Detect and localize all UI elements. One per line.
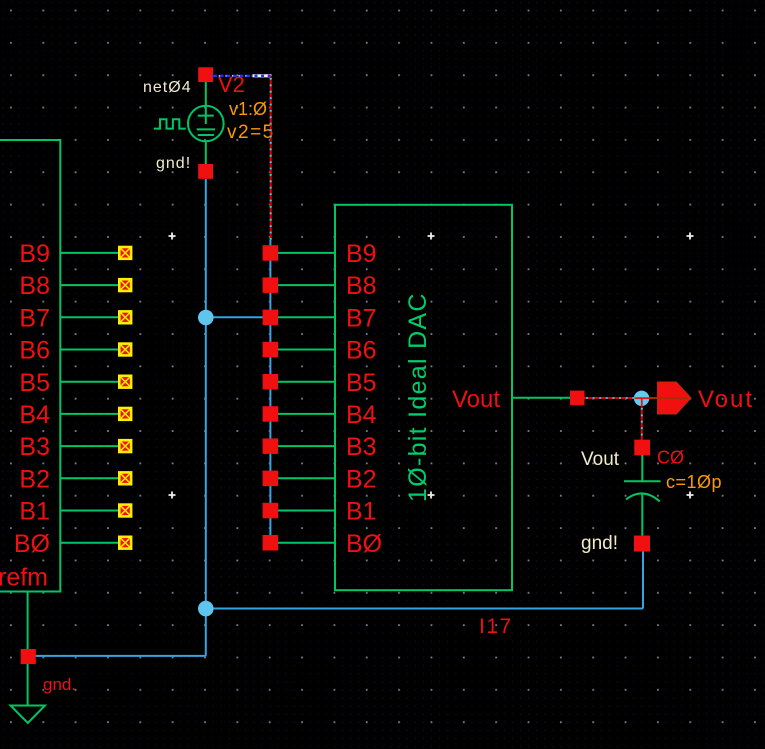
output pin arrow Vout bbox=[657, 382, 691, 414]
svg-text:Vout: Vout bbox=[581, 449, 620, 470]
junction dot at B7 bbox=[198, 310, 214, 326]
capacitor gnd terminal square bbox=[634, 536, 650, 552]
svg-text:netØ4: netØ4 bbox=[143, 79, 192, 96]
wire DAC input bus vertical blue bbox=[269, 240, 271, 550]
ground symbol triangle bbox=[11, 706, 46, 724]
svg-text:B5: B5 bbox=[19, 369, 50, 397]
grid marker cross 3 bbox=[687, 233, 694, 240]
left block pin labels B9-B0 bbox=[14, 240, 50, 558]
wire net04 horizontal selected (white end segment) bbox=[253, 74, 272, 77]
wire net04 white specks bbox=[214, 75, 252, 77]
wire B3 left stub bbox=[60, 445, 118, 447]
wire DAC B9 stub bbox=[278, 252, 335, 254]
wire DAC B5 stub bbox=[278, 381, 335, 383]
svg-text:B6: B6 bbox=[346, 337, 377, 365]
schematic pin B4 (yellow) bbox=[118, 407, 132, 421]
wire main vertical blue (gnd net) bbox=[205, 179, 207, 656]
wire DAC B3 stub bbox=[278, 445, 335, 447]
DAC block outline I17 bbox=[335, 205, 512, 590]
schematic pin B7 (yellow) bbox=[118, 310, 132, 324]
svg-text:1Ø-bit Ideal DAC: 1Ø-bit Ideal DAC bbox=[404, 292, 432, 502]
svg-text:B6: B6 bbox=[19, 337, 50, 365]
DAC terminal square B9 bbox=[263, 245, 279, 261]
svg-text:refm: refm bbox=[0, 564, 48, 592]
svg-text:B8: B8 bbox=[346, 272, 377, 300]
schematic pin B5 (yellow) bbox=[118, 375, 132, 389]
wire Vout from DAC bbox=[512, 397, 570, 399]
wire right vertical blue (cap gnd) bbox=[642, 551, 644, 609]
V2 plus sign bbox=[198, 115, 214, 117]
wire B2 left stub bbox=[60, 477, 118, 479]
voltage source V2 top wire stub bbox=[205, 82, 207, 124]
wire DAC B6 stub bbox=[278, 349, 335, 351]
schematic pin B3 (yellow) bbox=[118, 439, 132, 453]
wire DAC B8 stub bbox=[278, 284, 335, 286]
junction dot bottom bbox=[198, 601, 214, 617]
wire DAC B0 stub bbox=[278, 542, 335, 544]
schematic pin B1 (yellow) bbox=[118, 503, 132, 517]
V2 pulse waveform glyph bbox=[154, 119, 186, 128]
svg-text:B8: B8 bbox=[19, 272, 50, 300]
wire DAC B4 stub bbox=[278, 413, 335, 415]
V2 minus sign bars bbox=[197, 129, 215, 135]
DAC terminal square B6 bbox=[263, 342, 279, 358]
capacitor C0 bottom plate (arc) bbox=[626, 493, 660, 501]
wire net04 horizontal dashed blue bbox=[213, 75, 253, 77]
junction dot Vout bbox=[634, 391, 649, 406]
capacitor C0 bottom lead bbox=[641, 494, 643, 536]
svg-text:B3: B3 bbox=[346, 433, 377, 461]
wire DAC B7 stub bbox=[278, 316, 335, 318]
capacitor C0 top plate bbox=[624, 480, 661, 482]
schematic pin B8 (yellow) bbox=[118, 278, 132, 292]
svg-text:gnd!: gnd! bbox=[581, 533, 618, 554]
wire B9 left stub bbox=[60, 252, 118, 254]
schematic pin B0 (yellow) bbox=[118, 536, 132, 550]
schematic pin B6 (yellow) bbox=[118, 342, 132, 356]
schematic pin B2 (yellow) bbox=[118, 471, 132, 485]
grid marker cross 5 bbox=[428, 492, 435, 499]
wire B7 left stub bbox=[60, 316, 118, 318]
wire B5 left stub bbox=[60, 381, 118, 383]
wire branch to B7 bbox=[206, 316, 263, 318]
refm gnd terminal square bbox=[21, 649, 36, 664]
wire trace across output pin bbox=[650, 397, 688, 399]
DAC terminal square B2 bbox=[263, 471, 279, 487]
wire B8 left stub bbox=[60, 284, 118, 286]
Vout terminal square bbox=[570, 391, 585, 406]
wire V2 to B9 vertical selected red bbox=[270, 76, 272, 240]
svg-text:B2: B2 bbox=[346, 465, 377, 493]
DAC terminal square B4 bbox=[263, 406, 279, 422]
grid marker cross 2 bbox=[428, 233, 435, 240]
DAC pin labels B9-B0 bbox=[346, 240, 382, 558]
svg-text:B1: B1 bbox=[346, 498, 377, 526]
node net04 terminal square bbox=[198, 67, 213, 82]
wire B4 left stub bbox=[60, 413, 118, 415]
svg-text:CØ: CØ bbox=[657, 448, 684, 468]
wire DAC B1 stub bbox=[278, 510, 335, 512]
svg-text:Vout: Vout bbox=[698, 386, 754, 413]
svg-text:B4: B4 bbox=[19, 401, 50, 429]
capacitor C0 top lead bbox=[641, 455, 643, 481]
svg-text:gnd!: gnd! bbox=[156, 155, 191, 172]
svg-text:BØ: BØ bbox=[346, 530, 382, 558]
DAC terminal square B7 bbox=[263, 310, 279, 326]
svg-text:c=1Øp: c=1Øp bbox=[666, 472, 722, 492]
grid marker cross 4 bbox=[169, 492, 176, 499]
svg-text:v1:Ø: v1:Ø bbox=[229, 99, 267, 119]
voltage source V2 circle bbox=[188, 106, 224, 142]
svg-text:B2: B2 bbox=[19, 465, 50, 493]
svg-text:I17: I17 bbox=[479, 615, 513, 638]
capacitor C0 top terminal square bbox=[634, 440, 650, 456]
svg-text:B9: B9 bbox=[19, 240, 50, 268]
wire dot to capacitor dashed red bbox=[641, 406, 643, 440]
DAC terminal square B0 bbox=[263, 535, 279, 551]
wire B1 left stub bbox=[60, 510, 118, 512]
DAC terminal square B3 bbox=[263, 438, 279, 454]
svg-text:v2=5: v2=5 bbox=[227, 122, 275, 143]
svg-text:B9: B9 bbox=[346, 240, 377, 268]
wire square to ground symbol bbox=[27, 664, 29, 706]
left block outline (partial instance) bbox=[0, 140, 60, 592]
V2 bottom stub bbox=[205, 141, 207, 164]
DAC terminal square B5 bbox=[263, 374, 279, 390]
wire net04 blue dashes over white end bbox=[255, 75, 272, 77]
svg-text:B5: B5 bbox=[346, 369, 377, 397]
svg-text:B3: B3 bbox=[19, 433, 50, 461]
wire DAC B2 stub bbox=[278, 477, 335, 479]
wire dot to output pin bbox=[649, 397, 658, 399]
grid marker cross 6 bbox=[687, 492, 694, 499]
gnd! terminal square under V2 bbox=[198, 164, 213, 179]
svg-text:B7: B7 bbox=[19, 304, 50, 332]
svg-text:B4: B4 bbox=[346, 401, 377, 429]
wire bottom horizontal blue bbox=[206, 608, 643, 610]
wire bottom-left horizontal blue bbox=[36, 655, 206, 657]
schematic pin B9 (yellow) bbox=[118, 246, 132, 260]
svg-text:gnd.: gnd. bbox=[43, 675, 76, 694]
wire B0 left stub bbox=[60, 542, 118, 544]
grid marker cross 1 bbox=[169, 233, 176, 240]
wire V2 to B9 cyan dash highlight bbox=[270, 78, 272, 240]
DAC terminal square B1 bbox=[263, 503, 279, 519]
svg-text:B1: B1 bbox=[19, 498, 50, 526]
DAC terminal square B8 bbox=[263, 277, 279, 293]
wire B6 left stub bbox=[60, 349, 118, 351]
svg-text:B7: B7 bbox=[346, 304, 377, 332]
wire crossing over junction dot bbox=[635, 398, 650, 406]
svg-text:BØ: BØ bbox=[14, 530, 50, 558]
svg-text:Vout: Vout bbox=[452, 386, 500, 413]
wire refm stub down bbox=[27, 592, 29, 650]
wire Vout dashed red segment bbox=[585, 397, 635, 399]
